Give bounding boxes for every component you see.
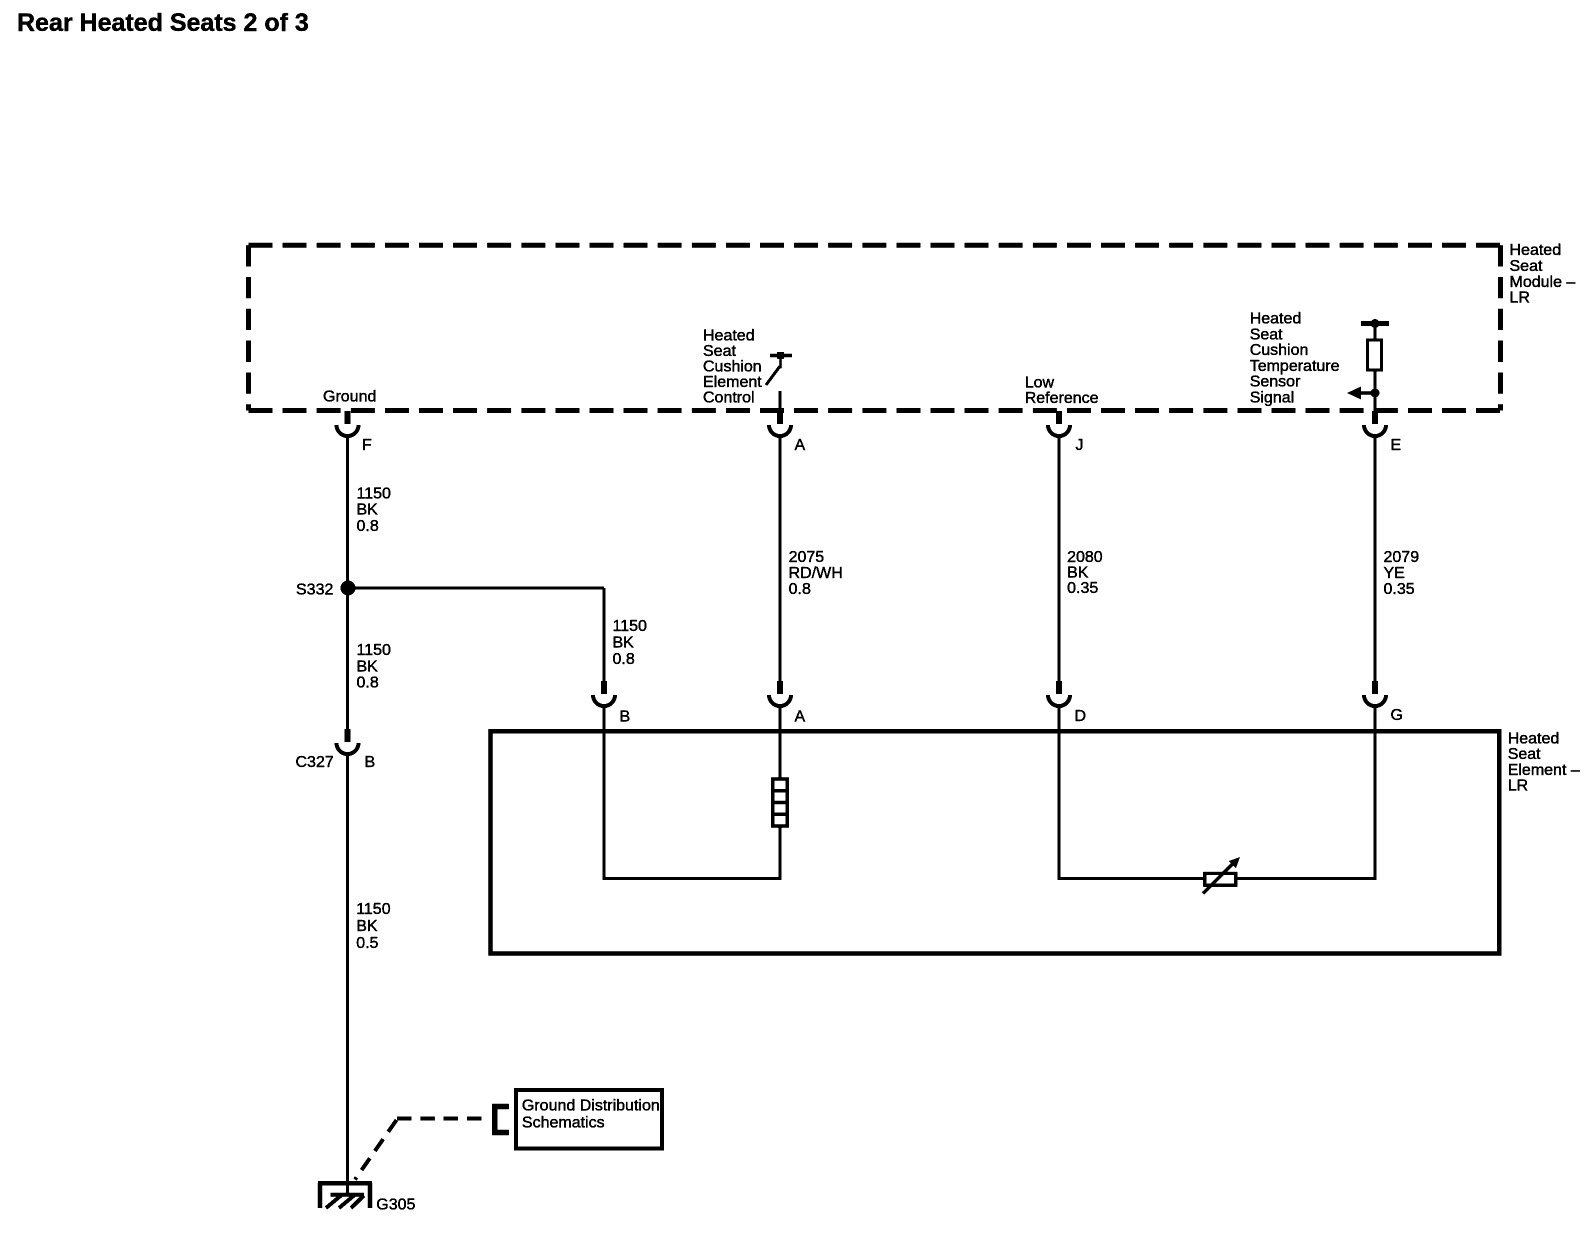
svg-text:Module –: Module – <box>1510 274 1576 291</box>
svg-text:G305: G305 <box>376 1196 415 1213</box>
svg-text:0.5: 0.5 <box>356 935 378 952</box>
svg-text:1150: 1150 <box>357 642 392 659</box>
svg-text:BK: BK <box>356 918 378 935</box>
svg-text:BK: BK <box>613 634 635 651</box>
svg-text:1150: 1150 <box>613 618 648 635</box>
svg-text:Low: Low <box>1025 374 1055 391</box>
svg-text:Temperature: Temperature <box>1250 358 1340 375</box>
svg-text:Heated: Heated <box>703 327 755 344</box>
svg-text:0.35: 0.35 <box>1067 580 1098 597</box>
svg-text:J: J <box>1076 437 1084 454</box>
svg-text:0.8: 0.8 <box>613 651 635 668</box>
svg-text:E: E <box>1391 437 1402 454</box>
svg-text:0.8: 0.8 <box>357 675 379 692</box>
svg-text:Rear Heated Seats 2 of 3: Rear Heated Seats 2 of 3 <box>17 9 309 37</box>
svg-text:Sensor: Sensor <box>1250 374 1301 391</box>
svg-text:LR: LR <box>1508 778 1528 795</box>
svg-text:Seat: Seat <box>1250 326 1283 343</box>
svg-text:BK: BK <box>1067 565 1089 582</box>
svg-text:Reference: Reference <box>1025 390 1099 407</box>
svg-text:F: F <box>362 437 372 454</box>
svg-text:RD/WH: RD/WH <box>789 565 843 582</box>
svg-text:Element: Element <box>703 374 762 391</box>
svg-text:Schematics: Schematics <box>522 1114 605 1131</box>
svg-text:Cushion: Cushion <box>703 358 762 375</box>
svg-text:LR: LR <box>1510 290 1530 307</box>
svg-text:1150: 1150 <box>356 901 391 918</box>
svg-text:Seat: Seat <box>703 343 736 360</box>
svg-text:A: A <box>795 437 806 454</box>
svg-text:Control: Control <box>703 389 755 406</box>
svg-text:Heated: Heated <box>1508 731 1560 748</box>
svg-text:Heated: Heated <box>1510 242 1562 259</box>
svg-text:BK: BK <box>357 658 379 675</box>
svg-text:Element –: Element – <box>1508 762 1580 779</box>
svg-text:Ground: Ground <box>323 389 376 406</box>
svg-text:G: G <box>1391 707 1403 724</box>
svg-text:1150: 1150 <box>357 485 392 502</box>
svg-text:Seat: Seat <box>1508 746 1541 763</box>
svg-text:D: D <box>1075 708 1087 725</box>
svg-text:Ground Distribution: Ground Distribution <box>522 1098 660 1115</box>
svg-text:A: A <box>795 709 806 726</box>
svg-text:BK: BK <box>357 502 379 519</box>
svg-text:S332: S332 <box>296 582 333 599</box>
svg-text:Heated: Heated <box>1250 311 1302 328</box>
svg-text:YE: YE <box>1384 565 1405 582</box>
svg-text:0.8: 0.8 <box>357 518 379 535</box>
svg-text:0.35: 0.35 <box>1384 581 1415 598</box>
svg-text:Seat: Seat <box>1510 258 1543 275</box>
svg-text:Signal: Signal <box>1250 390 1294 407</box>
svg-text:B: B <box>620 709 631 726</box>
svg-text:Cushion: Cushion <box>1250 342 1309 359</box>
svg-text:0.8: 0.8 <box>789 581 811 598</box>
svg-text:C327: C327 <box>296 754 334 771</box>
svg-text:B: B <box>365 754 376 771</box>
svg-text:2080: 2080 <box>1067 549 1103 566</box>
svg-text:2079: 2079 <box>1384 549 1420 566</box>
svg-text:2075: 2075 <box>789 549 825 566</box>
